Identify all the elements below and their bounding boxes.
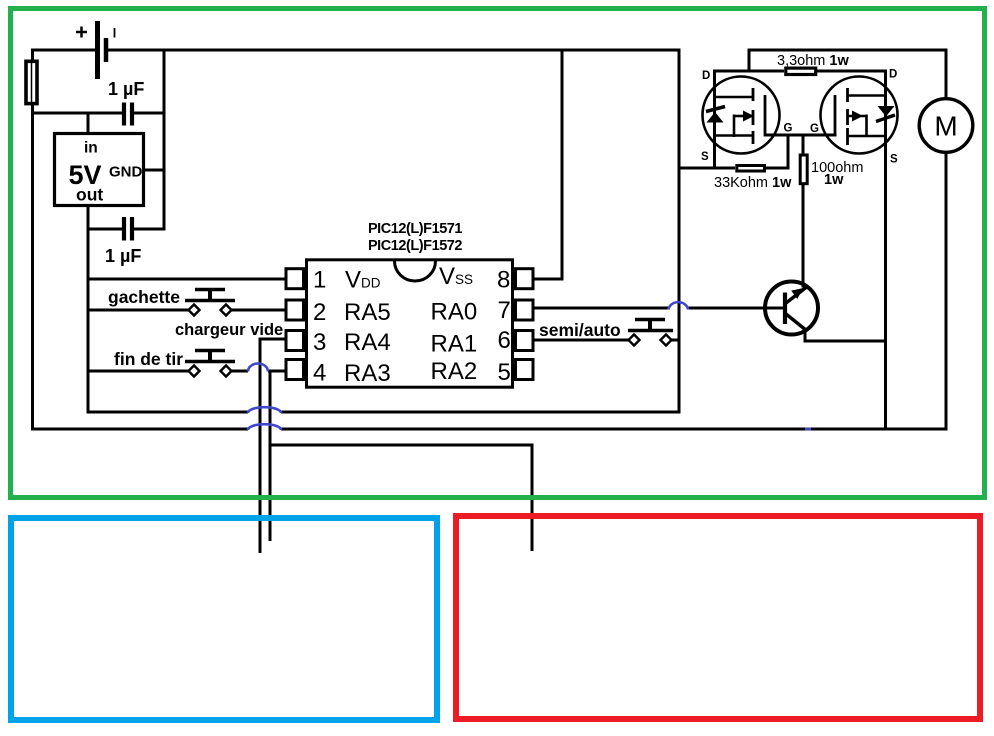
mosfet Q2 drain bar xyxy=(848,94,887,97)
wire 33K up to gate node xyxy=(787,134,790,167)
wire negative vertical x679 xyxy=(678,49,681,414)
wire transistor emitter row xyxy=(804,328,888,343)
svg-text:1 µF: 1 µF xyxy=(108,79,144,99)
svg-text:M: M xyxy=(934,111,957,142)
svg-text:chargeur vide: chargeur vide xyxy=(175,321,283,339)
wire right mosfet drain-source vertical down to bottom rail xyxy=(884,70,887,431)
wire ground vertical x164 xyxy=(163,49,166,231)
wire branch y445 to x532 down xyxy=(269,444,534,552)
IC pin box 1 xyxy=(286,269,304,289)
wire D rail between mosfets xyxy=(713,70,887,73)
wire pin6 semi/auto xyxy=(533,339,679,342)
regulator U2 5V box xyxy=(55,134,144,206)
svg-text:33Kohm 1w: 33Kohm 1w xyxy=(714,175,792,191)
svg-text:RA1: RA1 xyxy=(431,331,478,358)
svg-text:PIC12(L)F1571: PIC12(L)F1571 xyxy=(368,221,462,237)
svg-text:1: 1 xyxy=(313,267,326,294)
wire 5V out vertical x88 xyxy=(87,206,90,414)
wire node battery+ to regulator input y113 xyxy=(31,112,166,115)
frame green schematic border xyxy=(11,9,985,498)
wire hop arc pin7 over x679 xyxy=(669,302,689,309)
motor M1 circle xyxy=(919,99,973,153)
mosfet Q2 arrow xyxy=(848,115,867,138)
mosfet Q1 drain bar xyxy=(713,96,753,99)
wire pin3 chargeur vide xyxy=(260,338,286,554)
wire gate bus xyxy=(765,134,837,137)
resistor R2 33Kohm xyxy=(737,166,765,172)
svg-text:3: 3 xyxy=(313,329,326,356)
capacitor C1 1uF xyxy=(124,103,132,126)
transistor Q3 base bar xyxy=(783,293,787,325)
svg-text:RA0: RA0 xyxy=(431,299,478,326)
svg-text:7: 7 xyxy=(498,297,511,324)
frame red box xyxy=(456,516,980,719)
node marker blue tick on bottom rail xyxy=(805,428,811,431)
wire pin2 gachette xyxy=(87,309,287,312)
svg-text:G: G xyxy=(784,123,793,135)
wire left mosfet drain-source vertical xyxy=(713,70,716,170)
mosfet Q2 channel dashes xyxy=(846,88,849,145)
svg-text:RA3: RA3 xyxy=(344,360,391,387)
wire pin1 VDD xyxy=(88,278,286,281)
switch S3 semi/auto xyxy=(628,319,673,346)
mosfet Q2 gate bar xyxy=(834,95,837,137)
wire battery negative rail top xyxy=(31,49,681,52)
wire S row with 33K resistor xyxy=(678,167,790,170)
mosfet Q1 source bar xyxy=(713,134,753,137)
svg-text:in: in xyxy=(84,140,98,157)
svg-text:S: S xyxy=(701,151,709,163)
wire motor bottom vertical xyxy=(945,151,948,431)
wire pin8 VSS to top rail xyxy=(533,49,562,281)
IC pin box 4 xyxy=(286,360,304,380)
IC U1 notch xyxy=(395,261,436,281)
wire y412 from x88 to x679 xyxy=(88,411,681,414)
svg-text:D: D xyxy=(702,70,710,82)
mosfet Q2 source bar xyxy=(848,135,887,138)
wire capacitor C2 row y229 xyxy=(87,228,166,231)
svg-text:4: 4 xyxy=(313,360,326,387)
IC pin box 8 xyxy=(516,269,534,289)
transistor Q3 collector lead xyxy=(786,288,806,304)
mosfet Q1 gate bar xyxy=(764,95,767,137)
IC U1 PIC12 body xyxy=(307,260,513,387)
transistor Q3 circle xyxy=(765,282,818,335)
IC pin box 3 xyxy=(286,331,304,351)
wire hop arc fin de tir over x260 xyxy=(248,364,268,372)
IC pin box 6 xyxy=(516,331,534,351)
mosfet Q1 circle xyxy=(703,77,780,154)
svg-text:out: out xyxy=(76,185,103,205)
svg-text:GND: GND xyxy=(109,164,143,181)
switch S2 fin de tir xyxy=(185,350,235,377)
mosfet Q1 arrow xyxy=(734,115,746,118)
wire regulator GND to ground vertical xyxy=(144,169,166,172)
capacitor C2 1uF xyxy=(124,217,132,241)
svg-text:5: 5 xyxy=(498,359,511,386)
svg-text:G: G xyxy=(810,123,819,135)
battery B1 xyxy=(76,21,115,79)
wire left vertical from fuse down to bottom rail xyxy=(31,49,34,431)
transistor Q3 collector arrowhead xyxy=(791,288,803,299)
svg-text:S: S xyxy=(890,154,898,166)
wire motor top rail xyxy=(749,49,948,101)
IC pin box 5 xyxy=(516,360,534,380)
svg-text:fin de tir: fin de tir xyxy=(114,349,183,369)
svg-text:2: 2 xyxy=(313,299,326,326)
resistor R3 100ohm xyxy=(800,155,807,184)
svg-text:semi/auto: semi/auto xyxy=(539,320,621,340)
svg-text:1 µF: 1 µF xyxy=(105,246,141,266)
wire hop arc y412 over x260 x270 xyxy=(248,407,281,413)
IC pin box 2 xyxy=(286,300,304,320)
svg-text:D: D xyxy=(889,69,897,81)
svg-text:PIC12(L)F1572: PIC12(L)F1572 xyxy=(368,238,462,254)
svg-text:3,3ohm 1w: 3,3ohm 1w xyxy=(777,53,849,69)
wire regulator in drop xyxy=(87,112,90,134)
svg-text:RA2: RA2 xyxy=(431,358,478,385)
wire hop arc y429 over x260 x270 xyxy=(248,424,281,430)
wire pin4 fin de tir xyxy=(87,370,287,373)
mosfet Q1 body diode xyxy=(707,112,724,123)
wire bottom rail y429 xyxy=(31,428,948,431)
wire 100ohm vertical xyxy=(802,134,805,288)
transistor Q3 emitter lead xyxy=(786,314,807,331)
svg-text:1w: 1w xyxy=(824,172,844,188)
mosfet Q2 circle xyxy=(821,77,898,154)
svg-text:RA5: RA5 xyxy=(344,299,391,326)
svg-text:6: 6 xyxy=(498,327,511,354)
IC pin box 7 xyxy=(516,300,534,320)
wire pin7 to transistor base xyxy=(533,307,784,310)
mosfet Q2 body diode xyxy=(878,106,895,117)
frame blue box xyxy=(11,518,437,720)
mosfet Q1 channel dashes xyxy=(752,88,755,144)
wire pin4 branch vertical x270 xyxy=(269,370,272,542)
wire drop to D rail xyxy=(748,49,751,73)
svg-text:8: 8 xyxy=(497,267,510,294)
svg-text:gachette: gachette xyxy=(108,287,180,307)
fuse F1 xyxy=(26,61,37,103)
switch S1 gachette xyxy=(185,289,235,316)
resistor R1 3,3ohm xyxy=(786,68,816,74)
svg-text:RA4: RA4 xyxy=(344,329,391,356)
